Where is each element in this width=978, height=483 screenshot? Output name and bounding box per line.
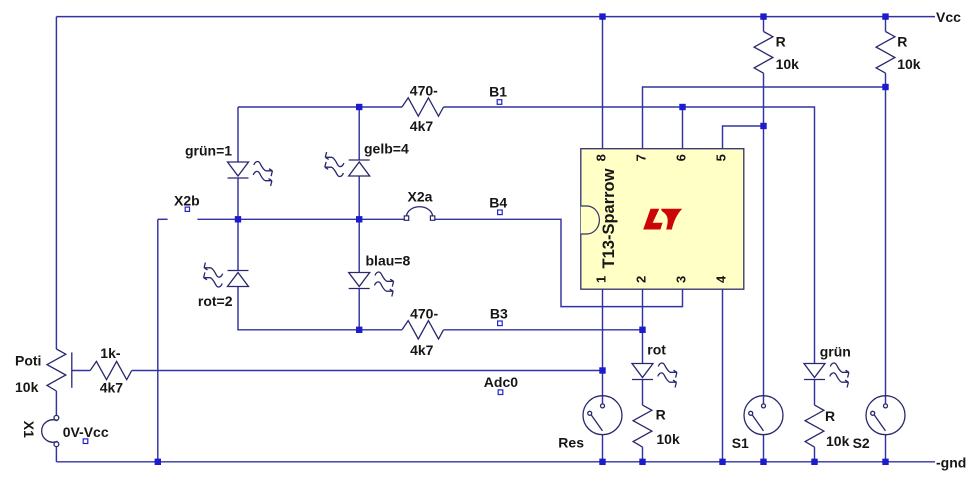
LED blau=8 (pointing down) [349, 273, 370, 289]
resistor 470-4k7 top (B1) [402, 98, 444, 116]
junction pin7 wire / right R column [882, 84, 888, 90]
svg-text:R: R [897, 34, 907, 50]
svg-text:4k7: 4k7 [410, 118, 434, 134]
wire rot LED to 10k resistor [642, 380, 644, 406]
svg-text:Poti: Poti [15, 353, 41, 369]
wire net B4 (X2a jumper to pin 3) [435, 219, 683, 306]
pushbutton Res [583, 396, 622, 435]
LED grün emission arrows [830, 363, 849, 387]
port square Adc0 [498, 390, 503, 395]
svg-text:Adc0: Adc0 [484, 374, 518, 390]
svg-text:S1: S1 [732, 435, 749, 451]
svg-text:B4: B4 [489, 195, 507, 211]
svg-text:Res: Res [558, 434, 584, 450]
wire X1 bottom to gnd rail [55, 446, 57, 462]
svg-text:3: 3 [673, 276, 688, 283]
junction gnd / X2b column [155, 459, 161, 465]
wire grün LED bottom to 10k resistor [814, 380, 816, 406]
svg-text:10k: 10k [656, 431, 680, 447]
svg-text:4: 4 [713, 275, 728, 283]
junction gnd / grün R column [811, 459, 817, 465]
pushbutton S1 [744, 396, 783, 435]
svg-text:4k7: 4k7 [100, 380, 124, 396]
jumper X2a [404, 207, 435, 221]
wire X2b row right part [197, 218, 404, 220]
wire pin 1 down to Res button [602, 289, 604, 404]
wire gelb=4 LED top lead [358, 107, 360, 160]
wire rot=2 LED top lead [237, 219, 239, 270]
junction gnd / S1 column [760, 459, 766, 465]
wire net B1 (470- resistor to grün column corner) [444, 107, 815, 364]
junction gnd / pin4 column [719, 459, 725, 465]
LED gelb=4 (pointing up) [349, 160, 370, 176]
LED rot emission arrows [658, 363, 677, 387]
junction gnd / rot R column [639, 459, 645, 465]
wire Vcc to left 10k resistor R [763, 17, 765, 32]
junction B3 / pin2 column [639, 327, 645, 333]
wire blau=8 LED bottom to B3 row [358, 289, 360, 330]
wire left 10k resistor down to S1 button [763, 73, 765, 404]
junction X2b row / grün column [235, 216, 241, 222]
svg-text:7: 7 [633, 154, 648, 161]
LED grün=1 emission arrows [253, 162, 272, 186]
wire gelb=4 LED bottom to X2b row [358, 176, 360, 219]
svg-text:10k: 10k [776, 56, 800, 72]
svg-text:R: R [776, 34, 786, 50]
junction B1 / gelb column [356, 104, 362, 110]
junction B1 / pin6 [679, 104, 685, 110]
svg-text:X1: X1 [21, 421, 37, 438]
svg-text:10k: 10k [826, 433, 850, 449]
svg-text:Vcc: Vcc [936, 9, 961, 25]
LED grün=1 (pointing down) [228, 162, 249, 178]
svg-text:8: 8 [593, 154, 608, 161]
resistor R 10k (grün column) [805, 405, 824, 447]
svg-text:1k-: 1k- [100, 345, 121, 361]
port square B1 [497, 100, 502, 105]
LED rot (pointing down) [632, 364, 653, 380]
wire S1 bottom to gnd [763, 435, 765, 462]
svg-text:X2a: X2a [408, 189, 433, 205]
resistor R2 10k (top right pullup) [876, 32, 895, 74]
svg-text:10k: 10k [897, 56, 921, 72]
junction pin5 wire / left R column [760, 123, 766, 129]
IC U1 T13-Sparrow body [581, 149, 744, 290]
wire pin 8 to Vcc rail [602, 17, 604, 149]
wire gnd bottom rail [56, 461, 935, 463]
junction B3 / blau column [356, 327, 362, 333]
wire pin 6 to net B1 [682, 107, 684, 149]
junction Adc0 / pin1 column [599, 367, 605, 373]
wire Poti bottom to X1 [55, 391, 57, 416]
port square B3 [498, 321, 503, 326]
wire grün=1 LED top lead [237, 107, 239, 162]
junction Vcc/pin8 [599, 13, 605, 19]
wire X2b row (X2b corner to X2a jumper) [158, 218, 168, 220]
svg-text:470-: 470- [410, 305, 438, 321]
svg-text:grün=1: grün=1 [185, 142, 232, 158]
wire S2 bottom to gnd [885, 435, 887, 462]
wire Res bottom to gnd [602, 435, 604, 462]
potentiometer Poti wiper bar [71, 352, 73, 387]
svg-text:0V-Vcc: 0V-Vcc [63, 424, 109, 440]
svg-text:10k: 10k [15, 379, 39, 395]
IC U1 pin-1 notch [581, 206, 600, 234]
LED rot=2 emission arrows [204, 263, 223, 287]
junction Vcc/R left [760, 13, 766, 19]
wire pin 7 to right 10k resistor column [643, 87, 886, 149]
IC U1 LT logo [643, 209, 682, 230]
resistor R1 10k (top left pullup) [754, 32, 773, 74]
wire blau=8 LED top lead [358, 219, 360, 272]
port square B4 [498, 210, 503, 215]
svg-text:470-: 470- [410, 83, 438, 99]
connector X1 [42, 415, 59, 446]
wire net Adc0 (1k- resistor to pin 1 column) [132, 370, 603, 372]
potentiometer Poti 10k body [47, 349, 66, 391]
wire right 10k resistor down to S2 button [885, 73, 887, 404]
wire X2b vertical (down to gnd) [157, 219, 159, 461]
svg-text:gelb=4: gelb=4 [364, 140, 409, 156]
wire pin 5 to left 10k resistor column [723, 126, 764, 149]
wire left rail (Vcc to Poti) [55, 17, 57, 349]
svg-text:R: R [825, 408, 835, 424]
wire LED row top (grün corner to 470- resistor) [238, 106, 402, 108]
port square 0V-Vcc [83, 439, 88, 444]
wire Poti wiper lead [72, 370, 90, 372]
svg-text:T13-Sparrow: T13-Sparrow [600, 168, 618, 268]
wire pin 2 down to rot LED [642, 289, 644, 363]
svg-text:B1: B1 [489, 84, 507, 100]
svg-text:blau=8: blau=8 [366, 252, 411, 268]
svg-text:6: 6 [673, 154, 688, 161]
svg-text:S2: S2 [853, 435, 870, 451]
svg-text:2: 2 [633, 276, 648, 283]
svg-text:5: 5 [713, 154, 728, 161]
LED blau=8 emission arrows [375, 272, 394, 296]
LED grün (pointing down) [804, 364, 825, 380]
svg-text:rot=2: rot=2 [198, 293, 233, 309]
svg-text:grün: grün [820, 344, 851, 360]
wire grün 10k resistor to gnd [814, 447, 816, 462]
junction Vcc/R right [882, 13, 888, 19]
svg-text:R: R [656, 407, 666, 423]
svg-text:B3: B3 [490, 306, 508, 322]
svg-text:-gnd: -gnd [936, 454, 966, 470]
svg-text:rot: rot [647, 342, 666, 358]
svg-text:1: 1 [593, 276, 608, 283]
LED gelb=4 emission arrows [325, 152, 344, 176]
wire rot=2 LED bottom to B3 row [238, 287, 402, 330]
wire rot 10k resistor to gnd [642, 447, 644, 462]
svg-text:4k7: 4k7 [410, 342, 434, 358]
wire net B3 (470- resistor to pin 2 column) [444, 329, 643, 331]
port square X2b [185, 207, 189, 211]
resistor 470-4k7 bottom (B3) [402, 321, 444, 339]
junction X2b row / gelb column [356, 216, 362, 222]
wire Vcc to right 10k resistor R [885, 17, 887, 32]
pushbutton S2 [866, 396, 905, 435]
svg-text:X2b: X2b [174, 193, 200, 209]
wire Vcc top rail [56, 16, 935, 18]
resistor 1k-4k7 (Adc0) [90, 361, 132, 379]
wire grün=1 LED bottom to X2b row [237, 178, 239, 219]
LED rot=2 (pointing up) [228, 271, 249, 287]
wire pin 4 down to gnd [722, 289, 724, 462]
resistor R 10k (rot column) [633, 405, 652, 447]
junction gnd / S2 column [882, 459, 888, 465]
junction gnd / Res column [599, 459, 605, 465]
